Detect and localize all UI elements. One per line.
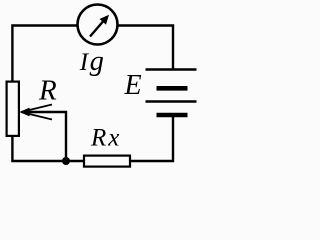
svg-text:Ig: Ig <box>79 46 104 77</box>
svg-text:Rx: Rx <box>90 125 121 152</box>
svg-text:E: E <box>124 70 142 101</box>
svg-text:R: R <box>38 74 57 106</box>
